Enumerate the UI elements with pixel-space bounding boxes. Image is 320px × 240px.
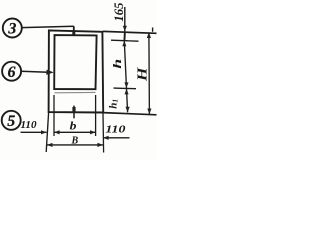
svg-text:5: 5 — [7, 113, 15, 130]
callout circle 3 — [3, 19, 22, 38]
dimension h1 line — [127, 88, 128, 112]
leader 6 arrowhead — [46, 70, 54, 75]
extension line inner-bottom (right) — [114, 87, 137, 90]
top extension line (outer top, to the right) — [103, 31, 157, 33]
dimension b line — [54, 131, 96, 133]
bottom centre tick (leader to bottom board) — [73, 106, 75, 119]
stray tick at end of top extension line — [152, 28, 154, 32]
svg-text:6: 6 — [8, 64, 16, 81]
svg-text:110: 110 — [21, 120, 37, 131]
svg-text:h: h — [112, 59, 124, 69]
bottom extension line (outer bottom, to the right) — [103, 113, 157, 115]
leader 6 — [21, 70, 48, 73]
dimension 110 right line and arrow — [103, 137, 130, 139]
svg-text:110: 110 — [105, 124, 126, 135]
svg-text:B: B — [71, 135, 79, 146]
dimension B line — [47, 144, 103, 146]
extension line outer-right (below) — [102, 113, 105, 153]
inner rectangle (cavity) — [54, 35, 96, 89]
extension line outer-left (below) — [46, 113, 48, 152]
svg-text:165: 165 — [111, 2, 126, 21]
svg-text:H: H — [134, 67, 149, 82]
extension line inner-left (below) — [53, 95, 55, 136]
dimension h line — [124, 41, 126, 89]
outer rectangle (box body) — [49, 30, 104, 112]
leader 3 arrow dot — [72, 31, 75, 35]
dimension H line — [148, 32, 151, 114]
dimension 110 left line and arrow — [21, 131, 47, 133]
ghost line under inner bottom — [55, 91, 96, 93]
extension line inner-right (below) — [95, 95, 97, 136]
extension line inner-top (165 lower line) — [111, 40, 139, 41]
callout circle 5 — [2, 111, 21, 130]
svg-text:h1: h1 — [107, 99, 119, 109]
svg-text:b: b — [70, 121, 77, 133]
leader 3 — [22, 26, 74, 27]
svg-text:3: 3 — [7, 21, 16, 38]
dimension line through 165 gap — [123, 31, 126, 41]
callout circle 6 — [2, 62, 21, 81]
dimension 165 upper arrow — [124, 7, 126, 31]
